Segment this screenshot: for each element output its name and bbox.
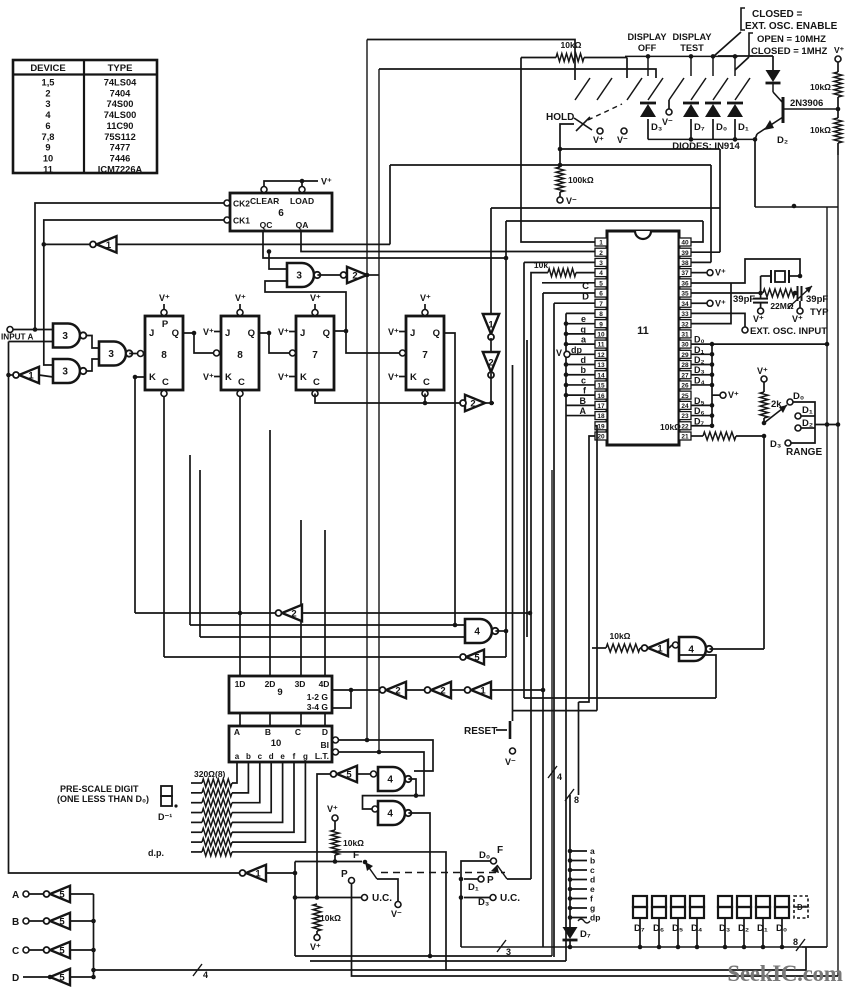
svg-text:c: c [581, 375, 586, 385]
wire FF4 Q out down to nand 4a [444, 333, 455, 625]
svg-text:7: 7 [312, 350, 318, 361]
svg-text:37: 37 [681, 270, 689, 277]
wire chip pin5 [542, 282, 595, 284]
wire 3d bottom input loop from FF3 Q [265, 281, 346, 331]
svg-text:3D: 3D [295, 679, 306, 689]
svg-text:15: 15 [597, 383, 605, 390]
wire vertical x390 from y165 [389, 165, 391, 244]
wire inverter1a input line y244 [114, 243, 116, 245]
svg-text:V⁻: V⁻ [617, 135, 628, 145]
nand gate 4c [679, 637, 712, 661]
svg-text:1: 1 [599, 240, 603, 247]
inverter 2c on y613 [238, 605, 302, 621]
wire display cathode stubs [638, 918, 785, 949]
svg-text:74S00: 74S00 [107, 99, 134, 109]
wire chip pin32 [691, 283, 731, 324]
wire right trunk x827 [826, 207, 828, 947]
flip-flop U8a [145, 293, 183, 397]
svg-text:INPUT A: INPUT A [1, 333, 34, 342]
svg-text:D₀: D₀ [694, 335, 705, 345]
svg-text:V⁺: V⁺ [388, 372, 399, 382]
nand gate 4a [465, 619, 492, 643]
svg-text:27: 27 [681, 372, 689, 379]
device/type table [13, 60, 157, 174]
nand gate 3c [99, 342, 126, 366]
svg-text:30: 30 [681, 342, 689, 349]
svg-text:CK2: CK2 [233, 199, 250, 209]
V- below reset [510, 748, 516, 754]
wire 4c output [709, 648, 764, 650]
svg-text:4: 4 [387, 809, 393, 820]
nand gate 4b1 [377, 767, 412, 791]
resistor 10k lower switch [331, 821, 364, 864]
wire column x527 [526, 340, 528, 637]
svg-text:V⁻: V⁻ [566, 196, 577, 206]
svg-text:J: J [149, 328, 154, 339]
svg-text:13: 13 [597, 362, 605, 369]
wire 4a output [495, 630, 506, 632]
V+ below UC resistor [314, 935, 320, 941]
wire FF4 C down [424, 394, 426, 404]
svg-text:7446: 7446 [110, 153, 131, 163]
bus slash 8 right [796, 939, 805, 951]
svg-text:9: 9 [277, 687, 282, 698]
V- lower switch [395, 902, 401, 908]
pre-scale digit label [57, 784, 149, 804]
wire LT output [333, 749, 425, 809]
svg-text:34: 34 [681, 301, 689, 308]
svg-text:10: 10 [271, 738, 282, 749]
svg-text:D₃: D₃ [770, 439, 781, 450]
dashed gang line lower [381, 872, 505, 874]
wire chip pin36 to crystal [691, 259, 800, 283]
pre-scale 7-segment icon D-1 [158, 786, 178, 822]
svg-text:V⁺: V⁺ [388, 327, 399, 337]
svg-text:74LS00: 74LS00 [104, 110, 137, 120]
inverter 5a [317, 766, 377, 898]
svg-text:B: B [265, 727, 271, 737]
inverter 1e on loop [240, 865, 298, 881]
svg-text:D₇: D₇ [694, 416, 704, 426]
svg-text:2: 2 [352, 270, 357, 281]
right switch box [459, 861, 490, 947]
wire 2k node down to nand output [763, 436, 765, 649]
resistor 10k lower right [810, 109, 842, 155]
diode D3 [640, 104, 656, 117]
svg-text:2: 2 [599, 250, 603, 257]
svg-text:33: 33 [681, 311, 689, 318]
svg-text:C: C [295, 727, 301, 737]
svg-text:3: 3 [296, 271, 302, 282]
wire U9 to U10 links [240, 713, 325, 726]
wire x8 trunk down-left [9, 342, 240, 874]
V+ at pin25 [720, 392, 726, 398]
ext osc input terminal [742, 327, 748, 333]
wire hold node to pin39 nest [560, 148, 720, 150]
svg-text:B: B [580, 396, 587, 406]
svg-text:D: D [12, 973, 19, 984]
svg-text:V⁺: V⁺ [278, 372, 289, 382]
crystal Y1 [761, 270, 803, 283]
diode D2 [766, 70, 781, 82]
wire chip pin12 dp input [556, 345, 595, 358]
wire 4c second input from below [679, 655, 716, 698]
svg-text:5: 5 [599, 280, 603, 287]
wire display control bus [625, 55, 738, 57]
wire 657 line [164, 656, 460, 658]
svg-text:DISPLAY: DISPLAY [628, 32, 667, 42]
bus slash 8 mid [565, 789, 574, 801]
wire FF1 K feed to y613 line [135, 377, 145, 613]
wire V+ to CLEAR and LOAD [264, 181, 318, 187]
resistors 320ohm x8 [148, 762, 446, 970]
display digits D7-D4 [633, 896, 704, 934]
svg-text:V⁺: V⁺ [203, 327, 214, 337]
wire U9 data inputs from above [270, 455, 325, 676]
wire y208 line to pin39 column [491, 207, 720, 209]
svg-text:d.p.: d.p. [148, 848, 164, 858]
wire trunk x379 to switch arm [379, 69, 656, 78]
svg-text:10kΩ: 10kΩ [320, 913, 341, 923]
wire nand 4a inputs [190, 455, 465, 637]
svg-text:D₀: D₀ [716, 122, 727, 133]
svg-text:D⁻¹: D⁻¹ [797, 903, 810, 912]
svg-text:320Ω(8): 320Ω(8) [194, 769, 226, 779]
svg-text:2N3906: 2N3906 [790, 98, 823, 109]
counter U6 (11C90) [230, 193, 332, 231]
svg-text:a: a [590, 846, 595, 856]
svg-text:J: J [300, 328, 305, 339]
wire chip pin38 [691, 261, 711, 263]
latch U9 (7477) [229, 676, 332, 713]
svg-text:10kΩ: 10kΩ [561, 40, 582, 50]
svg-text:V⁺: V⁺ [235, 293, 246, 303]
right range switch D0 contact [491, 858, 497, 864]
svg-text:V⁺: V⁺ [715, 298, 726, 308]
svg-text:8: 8 [793, 937, 798, 947]
svg-text:D₁: D₁ [694, 345, 704, 355]
svg-text:dp: dp [590, 913, 600, 923]
svg-text:D₀: D₀ [793, 391, 804, 402]
svg-text:4: 4 [45, 110, 51, 120]
svg-text:10kΩ: 10kΩ [343, 838, 364, 848]
svg-text:b: b [246, 752, 251, 761]
right switch P contact [478, 876, 484, 882]
wire FF1 C down to 657 line [163, 397, 165, 658]
svg-text:B: B [12, 917, 19, 928]
svg-text:V⁺: V⁺ [792, 314, 803, 324]
svg-text:1-2 G: 1-2 G [307, 692, 329, 702]
svg-text:D⁻¹: D⁻¹ [158, 812, 172, 822]
wire FF4 C-line tail [269, 430, 271, 455]
svg-text:8: 8 [574, 795, 579, 805]
svg-text:CK1: CK1 [233, 216, 250, 226]
label closed=ext osc enable [741, 8, 838, 32]
svg-text:8: 8 [237, 350, 243, 361]
svg-text:J: J [410, 328, 415, 339]
diode D1 [727, 104, 743, 117]
INPUT A terminal [7, 327, 13, 333]
V+ above 2k [761, 376, 767, 382]
wire 3d top input from QA line [269, 252, 287, 270]
wire QC to x506 [263, 231, 506, 258]
svg-text:9: 9 [45, 143, 50, 153]
svg-text:4: 4 [688, 645, 694, 656]
svg-text:V⁺: V⁺ [420, 293, 431, 303]
svg-text:D₂: D₂ [694, 355, 705, 365]
svg-text:Q: Q [323, 328, 330, 339]
svg-text:P: P [162, 319, 169, 330]
svg-text:C: C [423, 377, 430, 388]
wire right trunk x838 [837, 155, 839, 976]
svg-text:39pF: 39pF [806, 294, 828, 305]
svg-text:7,8: 7,8 [42, 132, 55, 142]
svg-text:28: 28 [681, 362, 689, 369]
U11 left pins 1-20 [595, 238, 607, 441]
svg-text:10kΩ: 10kΩ [660, 422, 681, 432]
svg-text:4: 4 [387, 775, 393, 786]
wire 1f output to CK1 net [44, 243, 90, 245]
wire chip pin1 from x521 [521, 58, 595, 243]
svg-text:1: 1 [657, 643, 663, 654]
svg-text:V⁻: V⁻ [505, 757, 516, 767]
flip-flop U7a [278, 293, 334, 397]
wire 1f input line [117, 243, 391, 245]
diode D0 [705, 104, 721, 117]
nand gate 3b [53, 359, 86, 383]
nand gate 3a [53, 324, 86, 348]
range contact D0 [787, 399, 793, 405]
svg-text:36: 36 [681, 280, 689, 287]
svg-text:e: e [280, 752, 285, 761]
wire FF2 Q to FF3 [259, 333, 289, 353]
svg-text:P: P [487, 875, 494, 886]
svg-text:V⁺: V⁺ [757, 366, 768, 376]
svg-text:1: 1 [480, 685, 486, 696]
svg-text:5: 5 [59, 945, 65, 956]
svg-text:D₁: D₁ [738, 122, 749, 133]
wire range bracket [791, 402, 840, 443]
svg-text:C: C [582, 281, 589, 292]
bus slash 4 bottom [193, 964, 202, 976]
svg-text:RESET: RESET [464, 726, 497, 737]
trunk x379 [378, 69, 380, 752]
wire 4b1 output loop to 4b2 [408, 779, 416, 796]
svg-text:5: 5 [59, 972, 65, 983]
svg-text:TYP: TYP [810, 307, 829, 318]
trunk x367 [366, 40, 368, 741]
svg-text:20: 20 [597, 434, 605, 441]
svg-text:9: 9 [599, 321, 603, 328]
V+ supply top right [835, 56, 841, 62]
capacitor 39pF right variable [788, 286, 829, 318]
svg-text:LOAD: LOAD [290, 196, 314, 206]
svg-text:10kΩ: 10kΩ [810, 125, 831, 135]
wire chip segment pins with labels [564, 314, 595, 416]
svg-text:D₂: D₂ [777, 135, 788, 146]
svg-text:K: K [300, 372, 307, 383]
U11 right pins 21-40 [679, 238, 691, 441]
svg-text:7404: 7404 [110, 88, 132, 98]
contact V- after D3 switch [666, 109, 672, 115]
range switch arm [764, 405, 787, 423]
inverter 2e [380, 682, 407, 698]
svg-text:26: 26 [681, 383, 689, 390]
svg-text:5: 5 [59, 889, 65, 900]
hold ganged switch dashes [588, 104, 622, 120]
wire 1c to 4c [669, 645, 672, 648]
svg-text:16: 16 [597, 393, 605, 400]
wire chip pin4 10k [531, 260, 595, 879]
svg-text:5: 5 [346, 769, 352, 780]
wire pin1 pullup 10k to switch [521, 40, 627, 78]
svg-text:V: V [556, 348, 562, 358]
svg-text:C: C [238, 377, 245, 388]
bus slash 4 mid [548, 766, 557, 778]
svg-text:OFF: OFF [638, 43, 657, 53]
svg-text:1: 1 [28, 370, 34, 381]
V+ above 10k lower [332, 815, 338, 821]
svg-text:e: e [581, 314, 586, 324]
V+ below right cap [797, 308, 803, 314]
diode D7 display [563, 919, 591, 947]
wire FF3 C to inverter 2d [315, 394, 460, 404]
wire FF2 C down to U9 1D [239, 397, 241, 677]
svg-text:(ONE LESS THAN D₀): (ONE LESS THAN D₀) [57, 794, 149, 804]
svg-text:2: 2 [395, 685, 400, 696]
wire FF1 Q to FF2 [183, 333, 213, 353]
diode D7 [683, 104, 699, 117]
wire input A to gate [13, 329, 53, 331]
range contact D1 [795, 413, 801, 419]
UC contact [362, 895, 368, 901]
svg-text:V⁺: V⁺ [593, 135, 604, 145]
switch arms top bank [575, 56, 750, 100]
wire 4b2 output down [408, 813, 430, 956]
svg-text:3: 3 [45, 99, 50, 109]
svg-text:D₇: D₇ [694, 122, 705, 133]
V+ at pin37 [707, 270, 713, 276]
svg-text:d: d [590, 875, 595, 885]
svg-text:QC: QC [260, 220, 273, 230]
wire collector to diode bus [755, 134, 757, 139]
svg-text:10kΩ: 10kΩ [610, 631, 631, 641]
svg-text:g: g [303, 752, 308, 761]
input A buffer [12, 886, 94, 902]
switch arm F to P [365, 862, 398, 901]
svg-text:f: f [590, 894, 593, 904]
wire CK1 net [44, 220, 224, 365]
svg-text:V⁺: V⁺ [715, 268, 726, 278]
svg-text:2D: 2D [265, 679, 276, 689]
resistor 22M [758, 276, 797, 311]
svg-text:100kΩ: 100kΩ [568, 175, 594, 185]
U6 CLEAR pin [261, 187, 267, 193]
wire inverter 1a output to trunk [9, 374, 14, 376]
resistor 100k [556, 147, 594, 197]
svg-text:24: 24 [681, 403, 689, 410]
svg-text:A: A [580, 406, 587, 416]
svg-text:d: d [269, 752, 274, 761]
svg-text:10k: 10k [534, 260, 548, 270]
svg-text:c: c [590, 865, 595, 875]
svg-text:K: K [149, 372, 156, 383]
wire 3a bottom input from trunk [9, 341, 54, 343]
svg-text:D₁: D₁ [468, 882, 479, 893]
inverter 2f [407, 682, 451, 698]
svg-text:1D: 1D [235, 679, 246, 689]
wire chip pin3 from x524 [524, 261, 595, 263]
svg-text:11C90: 11C90 [107, 121, 134, 131]
V+ below left cap [758, 308, 764, 314]
svg-text:A: A [234, 727, 240, 737]
inverter 1c [642, 640, 669, 656]
svg-text:L.T.: L.T. [315, 751, 329, 761]
svg-text:g: g [581, 324, 587, 334]
range contact D2 [795, 425, 801, 431]
svg-text:8: 8 [599, 311, 603, 318]
svg-text:3: 3 [62, 331, 68, 342]
wire y165 line to pin38 [390, 164, 711, 166]
svg-text:f: f [293, 752, 296, 761]
V+ at pin34 [707, 300, 713, 306]
svg-text:11: 11 [637, 325, 649, 337]
IC U11 ICM7226A body [607, 231, 679, 445]
svg-text:38: 38 [681, 260, 689, 267]
svg-text:Q: Q [433, 328, 440, 339]
svg-text:CLEAR: CLEAR [250, 196, 279, 206]
svg-text:V⁺: V⁺ [728, 390, 739, 400]
svg-text:PRE-SCALE DIGIT: PRE-SCALE DIGIT [60, 784, 139, 794]
capacitor 39pF left [733, 293, 768, 308]
svg-text:2: 2 [488, 357, 493, 368]
svg-text:g: g [590, 903, 595, 913]
right switch arm [491, 865, 531, 879]
inverter 1b pointing down [483, 314, 499, 334]
svg-text:d: d [581, 355, 587, 365]
svg-text:Q: Q [248, 328, 255, 339]
svg-text:EXT. OSC. ENABLE: EXT. OSC. ENABLE [745, 21, 838, 32]
svg-text:39: 39 [681, 250, 689, 257]
wire CK2 to input net [35, 203, 224, 330]
wire x578 down [578, 702, 580, 711]
wire x506 column pin40 net [505, 221, 507, 657]
svg-text:7: 7 [599, 301, 603, 308]
wire emitter junction horizontal y207 [755, 206, 838, 208]
svg-text:e: e [590, 884, 595, 894]
svg-text:10kΩ: 10kΩ [810, 82, 831, 92]
inverter 2b pointing down [483, 352, 499, 372]
svg-text:SeekIC.com: SeekIC.com [727, 961, 842, 986]
wire column x512 [512, 365, 514, 711]
svg-text:11: 11 [598, 342, 605, 349]
hold V- contact [621, 128, 627, 134]
input C buffer [12, 942, 94, 958]
svg-text:TEST: TEST [680, 43, 704, 53]
svg-text:19: 19 [597, 423, 605, 430]
wire chip pin19 [595, 426, 597, 711]
flip-flop U8b [203, 293, 259, 397]
svg-text:C: C [162, 377, 169, 388]
svg-text:OPEN = 10MHZ: OPEN = 10MHZ [757, 34, 826, 45]
svg-text:23: 23 [681, 413, 689, 420]
inverter 5b on y657 line [460, 650, 484, 665]
U6 CK2 pin [224, 200, 230, 206]
display digit D-1 dashed [794, 896, 810, 918]
wire QA to chip pin2 [301, 231, 595, 252]
svg-text:22: 22 [681, 423, 689, 430]
svg-text:V⁺: V⁺ [834, 45, 845, 55]
